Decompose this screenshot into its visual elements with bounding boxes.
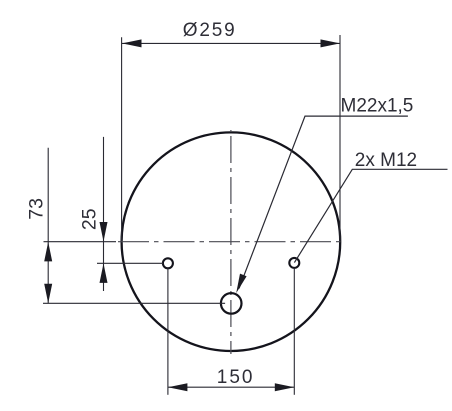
dim 73 line [47,148,49,304]
hole M22 center [221,293,242,314]
hole M12 left [163,258,173,268]
dim Ø259 line [122,42,340,44]
dim 150 right extension line [293,268,295,395]
svg-text:Ø259: Ø259 [183,20,237,41]
dim Ø259 left arrow [122,39,142,47]
dim 73 upper arrow [44,242,52,262]
dim 150 left extension line [167,268,169,395]
dim 150 line [168,386,294,388]
vertical centerline [230,130,232,354]
extension line left hole level [97,262,163,264]
extension line center hole level [43,302,225,304]
leader M22x1,5 arrow [236,274,246,294]
dim Ø259 left extension line [121,37,123,241]
dim 150 right arrow [275,383,295,391]
dim 25 line [103,137,105,291]
dim 25 lower arrow [100,263,108,283]
dim Ø259 right extension line [339,35,341,241]
plate outline circle Ø259 [122,132,341,351]
svg-text:2x M12: 2x M12 [355,150,417,171]
dim 150 left arrow [168,383,188,391]
dim 73 lower arrow [44,284,52,304]
svg-text:25: 25 [79,208,101,230]
horizontal centerline solid extension [44,241,117,243]
svg-text:M22x1,5: M22x1,5 [341,95,414,116]
dim 25 upper arrow [100,222,108,242]
hole M12 right [289,258,299,268]
horizontal centerline dash-dot [116,241,343,243]
leader M22x1,5 line [239,116,408,288]
leader 2x M12 line [294,169,447,262]
svg-text:73: 73 [26,198,48,220]
svg-text:150: 150 [217,367,255,388]
dim Ø259 right arrow [321,39,341,47]
